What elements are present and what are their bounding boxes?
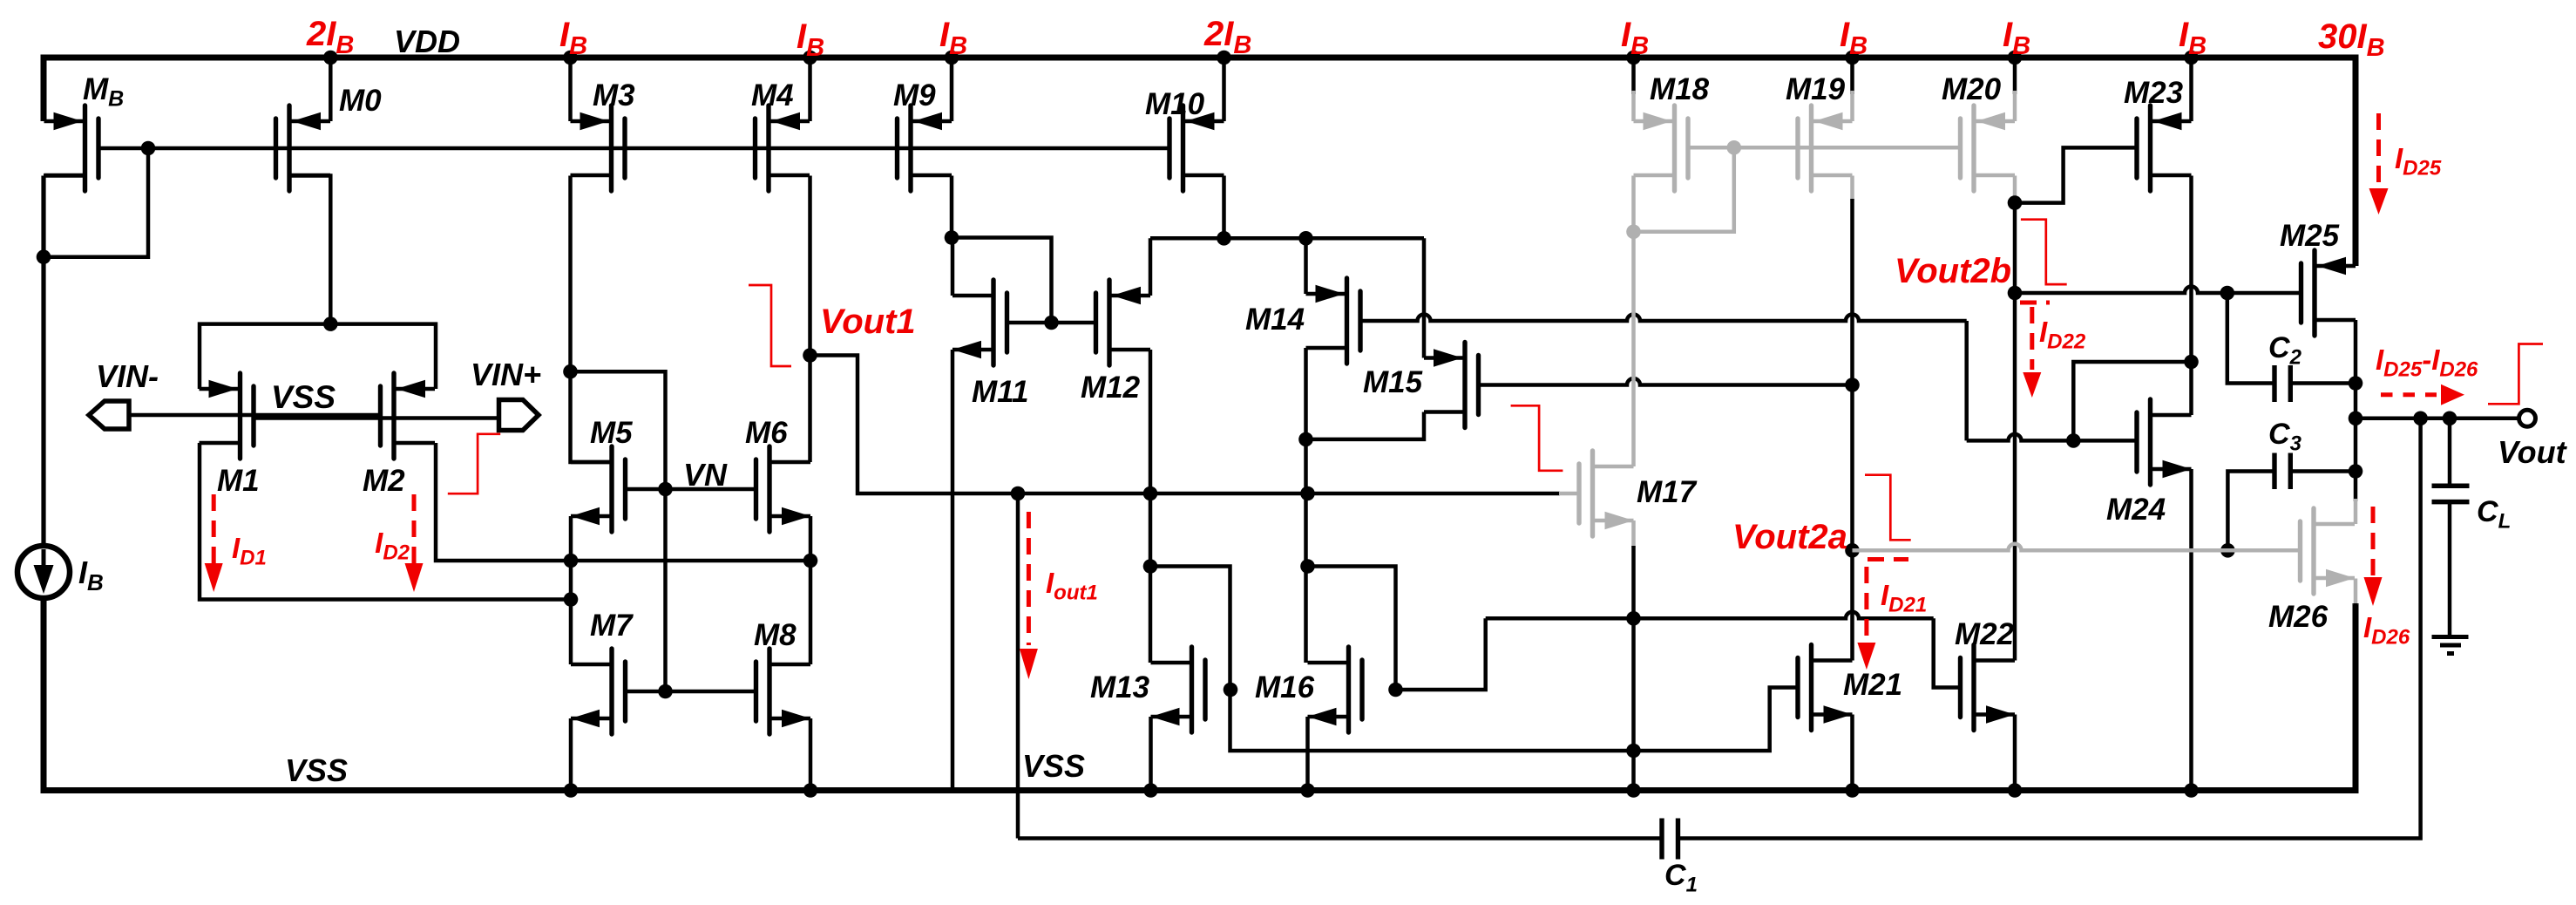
node C2 output column: [2349, 376, 2363, 391]
wire M4 source from VDD: [808, 58, 812, 121]
node Iout1 junction: [1011, 487, 1026, 501]
transistor M14: [1306, 278, 1361, 364]
svg-text:VSS: VSS: [1022, 748, 1085, 784]
transistor M18: [1634, 105, 1689, 191]
node VDD IB M4: [803, 51, 817, 65]
wire PMOS gate bus: [98, 146, 1169, 151]
svg-text:VIN+: VIN+: [471, 357, 541, 392]
wire M13 gate to M21 gate lower link: [1230, 688, 1799, 752]
transistor M26: [2301, 508, 2356, 594]
svg-text:M9: M9: [893, 78, 936, 112]
svg-text:M22: M22: [1955, 617, 2015, 651]
wire C2 left lead: [2227, 293, 2274, 384]
current arrow ID25: [2369, 113, 2389, 214]
wire M15 drain column: [1422, 238, 1427, 357]
node M13 gate junction: [1224, 683, 1238, 697]
waveform step at M17 gate: [1511, 405, 1563, 471]
wire M10 drain node line: [1150, 236, 1424, 241]
node M8 source VSS: [803, 783, 818, 798]
wire left rail upper: [41, 176, 45, 547]
current arrow ID21: [1857, 560, 1908, 670]
wire VIN+ to M2 gate: [254, 416, 499, 420]
waveform step at Vout2a: [1865, 475, 1911, 541]
wire C2 right lead: [2290, 381, 2356, 385]
transistor M3: [571, 105, 626, 191]
svg-text:M18: M18: [1650, 72, 1710, 106]
node M11 M12 gate junction: [1044, 316, 1059, 330]
wire M19 drain column: [1850, 176, 1854, 201]
node MB diode to rail: [37, 249, 51, 264]
wire M11 drain column: [951, 238, 955, 296]
svg-text:M20: M20: [1942, 72, 2002, 106]
transistor M6: [756, 446, 811, 532]
svg-text:M15: M15: [1363, 365, 1423, 399]
node C3 Vout2a junction: [2220, 543, 2235, 558]
node Vout2a: [1845, 543, 1860, 558]
node VDD 2IB M10: [1217, 51, 1231, 65]
svg-text:M12: M12: [1081, 371, 1141, 405]
capacitor C3: [2274, 453, 2290, 490]
svg-text:M7: M7: [590, 609, 634, 643]
current arrow ID1: [205, 494, 223, 592]
wire M12 source column: [1149, 350, 1153, 663]
current source IB: [17, 546, 70, 598]
wire M14 column: [1304, 238, 1308, 294]
svg-text:M16: M16: [1255, 670, 1315, 704]
node VDD IB M3: [563, 51, 578, 65]
node VDD 2IB: [323, 51, 338, 65]
node M18 drain gray: [1626, 225, 1641, 240]
node M16 source VSS: [1300, 783, 1315, 798]
wire M2 drain: [436, 443, 810, 561]
node Vout2b: [2008, 286, 2023, 301]
node VDD IB M20: [2008, 51, 2023, 65]
wire M20 drain column: [2013, 176, 2017, 205]
node M14 column Vout1 wire: [1300, 487, 1315, 501]
wire M4 drain to Vout1: [808, 176, 812, 463]
transistor M16: [1308, 647, 1363, 732]
transistor M10: [1169, 105, 1224, 191]
wire M17 source column to VSS: [1631, 521, 1636, 548]
wire VN M5 M6 gates: [626, 487, 756, 492]
node M20 drain M23 gate: [2008, 195, 2023, 210]
wire M24 source to VSS: [2189, 469, 2193, 791]
svg-text:M14: M14: [1245, 303, 1305, 337]
svg-text:M19: M19: [1786, 72, 1846, 106]
node M17 source gate net: [1626, 611, 1641, 626]
wire M23 drain column: [2189, 176, 2193, 416]
svg-text:VSS: VSS: [285, 752, 348, 788]
waveform step at VIN+: [448, 434, 500, 493]
wire M14 source column down: [1304, 348, 1308, 663]
capacitor C2: [2274, 365, 2290, 402]
node C1 riser output: [2413, 412, 2428, 426]
ground: [2432, 637, 2469, 654]
wire M1 drain: [200, 443, 571, 600]
wire M3 node to VN column: [571, 371, 666, 691]
transistor M22: [1961, 645, 2016, 731]
wire VIN- to M1 gate: [129, 413, 381, 418]
transistor M25: [2301, 250, 2356, 336]
node M14 M15 source junction: [1298, 432, 1313, 447]
svg-text:M11: M11: [972, 375, 1029, 409]
node M16 column M16 gate branch: [1300, 559, 1315, 574]
transistor M23: [2137, 105, 2192, 191]
wire M11 M12 gate link: [1007, 321, 1096, 325]
wire M19 source from VDD: [1850, 58, 1854, 94]
transistor M9: [898, 105, 952, 191]
node M24 gate branch: [2066, 433, 2081, 448]
svg-text:M13: M13: [1090, 670, 1150, 704]
waveform step at Vout: [2488, 344, 2543, 405]
node M6 source rail: [803, 554, 818, 568]
node output junction: [2349, 412, 2363, 426]
transistor M1: [200, 373, 254, 459]
node CL output: [2443, 412, 2457, 426]
transistor MB: [44, 105, 99, 191]
node VN junction: [658, 482, 673, 497]
node VDD IB M18: [1626, 51, 1641, 65]
wire C3 left lead: [2227, 472, 2274, 551]
wire M23 drain to M24 gate branch: [2073, 362, 2191, 440]
wire M3 drain down: [568, 176, 573, 372]
svg-text:M10: M10: [1145, 87, 1205, 121]
svg-text:VN: VN: [683, 457, 728, 493]
transistor M5: [571, 446, 626, 532]
wire M3 source from VDD: [568, 58, 573, 121]
svg-text:M21: M21: [1843, 668, 1902, 702]
wire M7 source to VSS: [569, 718, 573, 791]
wire Vout1 to first stage output: [810, 356, 1561, 494]
svg-text:M2: M2: [363, 464, 405, 498]
svg-text:VSS: VSS: [271, 379, 336, 415]
wire M22 source to VSS: [2013, 715, 2017, 791]
node C2 branch: [2220, 286, 2235, 301]
wire M13 gate branch: [1150, 567, 1230, 691]
transistor M2: [381, 373, 436, 459]
transistor M20: [1961, 105, 2016, 191]
wire M9 source from VDD: [950, 58, 954, 121]
wire M11 source to VSS: [951, 350, 955, 791]
svg-text:Vout1: Vout1: [820, 303, 916, 341]
wire M7 M8 gates: [626, 690, 756, 694]
node M14 source top: [1298, 231, 1313, 246]
node M3 drain: [563, 364, 578, 379]
wire M17 drain gray column: [1631, 232, 1636, 466]
wire C3 right lead: [2290, 469, 2356, 473]
transistor M12: [1096, 280, 1151, 365]
wire M18 diode connection: [1631, 176, 1636, 232]
transistor M24: [2137, 399, 2192, 485]
node M12 column Vout1 wire: [1143, 487, 1158, 501]
wire M9 drain down: [950, 176, 954, 238]
wire M16 gate branch: [1308, 567, 1396, 691]
wire M25 drain column: [2354, 320, 2358, 501]
node M15 gate to M19 drain: [1845, 378, 1860, 392]
svg-text:M1: M1: [217, 464, 260, 498]
current arrow ID2: [405, 494, 424, 592]
current arrow ID22: [2020, 303, 2050, 398]
svg-text:M8: M8: [754, 618, 797, 652]
svg-text:M17: M17: [1637, 475, 1698, 509]
waveform step at Vout2b: [2021, 220, 2067, 284]
node M16 gate junction: [1388, 683, 1403, 697]
svg-text:VIN-: VIN-: [96, 358, 159, 394]
wire M26 source to VSS: [2354, 579, 2358, 606]
node M12 column M13 gate branch: [1143, 559, 1158, 574]
transistor M8: [756, 649, 811, 734]
svg-text:M23: M23: [2124, 76, 2184, 110]
node M9 drain: [945, 230, 959, 245]
transistor M11: [952, 280, 1007, 365]
wire MB drain: [44, 174, 85, 178]
wire M23 gate staircase: [2015, 147, 2137, 202]
transistor M7: [571, 649, 626, 734]
wire M8 source to VSS: [809, 718, 813, 791]
node M1 drain / M5 source column: [564, 592, 579, 607]
node M17 column lower link: [1626, 744, 1641, 759]
capacitor CL: [2432, 418, 2470, 635]
node Vout1: [803, 348, 817, 363]
node M22 source VSS: [2008, 783, 2023, 798]
wire M5 source to M7 drain: [569, 516, 573, 664]
wire Iout1 to C1: [1016, 493, 1020, 839]
current arrow ID26: [2364, 507, 2383, 606]
node M17 source VSS: [1626, 783, 1641, 798]
svg-text:M0: M0: [339, 84, 382, 118]
wire M10 drain down: [1222, 176, 1226, 239]
svg-text:M26: M26: [2268, 600, 2329, 634]
svg-text:VDD: VDD: [394, 24, 460, 59]
wire M3 drain to M5 drain: [571, 371, 613, 462]
current arrow Iout1: [1020, 512, 1038, 679]
svg-text:M6: M6: [745, 416, 788, 450]
wire M16 source to VSS: [1305, 717, 1310, 791]
transistor M13: [1151, 647, 1206, 732]
node M24 source VSS: [2184, 783, 2199, 798]
wire diff pair source bus: [200, 324, 436, 389]
wire M14 gate net: [1360, 315, 1967, 321]
wire M18 M19 M20 gray gate bus: [1688, 146, 1961, 150]
node M18 gate gray: [1727, 140, 1742, 155]
transistor M21: [1798, 645, 1853, 731]
node VDD IB M19: [1845, 51, 1860, 65]
wire Vout2b to M25 gate: [2015, 287, 2301, 293]
node M21 source VSS: [1845, 783, 1860, 798]
wire M20 source from VDD: [2013, 58, 2017, 94]
wire M0 drain to diff pair sources: [289, 176, 330, 324]
node C3 output column: [2349, 464, 2363, 479]
transistor M0: [276, 105, 331, 191]
wire M21 drain column: [1850, 550, 1854, 660]
node M23 drain M24 net: [2184, 355, 2199, 370]
node VDD IB M9: [945, 51, 959, 65]
wire M14 gate net to M24 gate: [1964, 321, 1969, 440]
node VDD IB M23: [2184, 51, 2199, 65]
wire M12 drain up: [1149, 238, 1153, 296]
current arrow ID25-ID26: [2381, 384, 2464, 405]
transistor M4: [756, 105, 810, 191]
svg-text:M5: M5: [590, 416, 633, 450]
node MB gate junction: [141, 141, 156, 156]
svg-text:Vout: Vout: [2498, 434, 2568, 470]
wire Vout2a to M26 gate: [1853, 544, 2301, 550]
node M0 drain junction: [323, 316, 338, 331]
svg-text:Vout2a: Vout2a: [1732, 518, 1847, 556]
svg-text:M4: M4: [751, 78, 794, 112]
wire M10 source from VDD: [1222, 58, 1226, 121]
wire MB diode connection: [44, 148, 148, 257]
wire M15 gate net: [1479, 378, 1853, 385]
waveform step at Vout1: [749, 285, 791, 366]
wire output line: [2356, 417, 2519, 421]
transistor M19: [1798, 105, 1853, 191]
wire M18 source from VDD: [1631, 58, 1636, 94]
wire C1 to output: [1678, 418, 2421, 839]
port VIN-: [89, 401, 129, 429]
wire M0 source from VDD: [329, 58, 333, 121]
capacitor C1: [1662, 819, 1678, 860]
wire M13 source to VSS: [1149, 717, 1153, 791]
wire M23 source from VDD: [2189, 58, 2193, 121]
node M7 source VSS: [564, 783, 579, 798]
wire M15 source link: [1306, 412, 1425, 439]
VSS rail: [44, 598, 2356, 791]
transistor M17: [1579, 451, 1634, 536]
svg-text:M24: M24: [2106, 493, 2166, 527]
wire M21 source to VSS: [1850, 715, 1854, 791]
node M7 M8 gate junction: [658, 684, 673, 699]
node M10 drain: [1217, 231, 1231, 246]
VDD rail: [44, 58, 2356, 266]
wire M9 drain to M11 M12 gates: [952, 238, 1052, 323]
wire M17 gate stub: [1559, 492, 1579, 496]
wire M6 source to M8 drain: [809, 516, 813, 664]
transistor M15: [1424, 343, 1479, 428]
node M2 drain / M5 source: [564, 554, 579, 568]
svg-text:M25: M25: [2280, 219, 2340, 253]
svg-text:M3: M3: [593, 78, 635, 112]
port VIN+: [499, 400, 539, 431]
port Vout terminal: [2519, 410, 2536, 426]
svg-text:Vout2b: Vout2b: [1895, 252, 2011, 290]
wire M16 gate to M21 M22 gates: [1396, 618, 1486, 690]
node M13 source VSS: [1143, 783, 1158, 798]
